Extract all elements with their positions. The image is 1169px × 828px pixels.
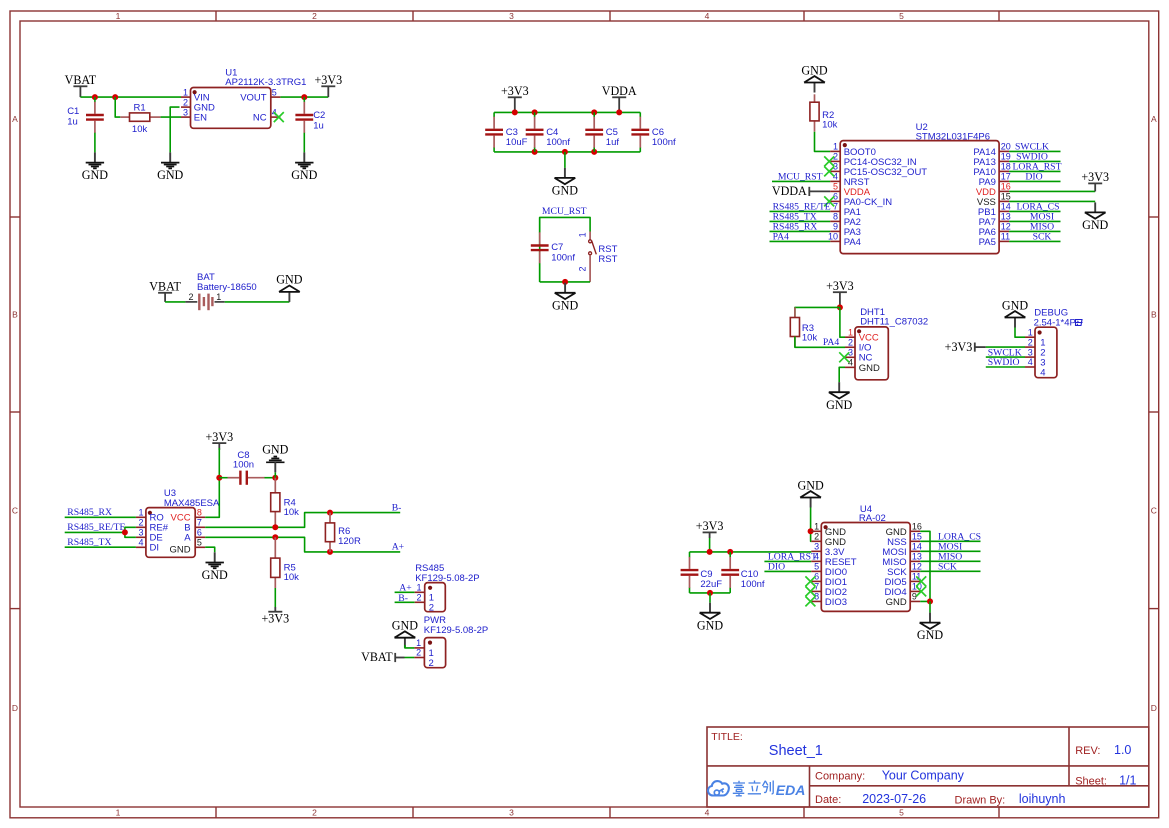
pin 5 DIO0 (811, 570, 821, 572)
wire SWDIO (986, 366, 1025, 368)
svg-text:C: C (1151, 505, 1157, 515)
svg-text:5: 5 (272, 87, 277, 97)
svg-text:2: 2 (183, 97, 188, 107)
wire battery right (225, 301, 290, 303)
capacitor C9 (689, 552, 691, 558)
pin 3 DE (136, 536, 146, 538)
pin 2 (1025, 346, 1035, 348)
svg-text:Sheet_1: Sheet_1 (769, 743, 823, 759)
ground (709, 603, 711, 613)
svg-text:9: 9 (912, 592, 917, 602)
pin 10 PA4 (830, 240, 840, 242)
wire SWCLK (1009, 150, 1060, 152)
net flag VBAT (394, 653, 396, 662)
svg-text:2: 2 (416, 648, 421, 658)
wire DIO (764, 570, 811, 572)
svg-text:Company:: Company: (815, 771, 865, 783)
svg-text:C1: C1 (67, 106, 79, 117)
svg-text:20: 20 (1001, 141, 1011, 151)
junction (216, 475, 222, 481)
svg-text:5: 5 (197, 537, 202, 547)
svg-text:1: 1 (578, 232, 588, 237)
pin 7 B (195, 526, 205, 528)
wire R1 to EN (161, 116, 181, 118)
net flag +3V3 (212, 442, 226, 444)
svg-text:VBAT: VBAT (149, 280, 181, 294)
svg-text:GND: GND (801, 63, 827, 77)
wire VSS to ground (1009, 200, 1095, 202)
svg-text:5: 5 (814, 562, 819, 572)
svg-text:2: 2 (429, 658, 434, 669)
svg-text:+3V3: +3V3 (945, 340, 973, 354)
svg-text:C: C (12, 505, 18, 515)
wire MISO (1009, 230, 1060, 232)
wire battery left (165, 301, 185, 303)
junction (272, 534, 278, 540)
ground (564, 283, 566, 293)
wire SWCLK (986, 356, 1025, 358)
svg-text:A: A (1151, 114, 1157, 124)
svg-text:+3V3: +3V3 (205, 430, 233, 444)
wire SCK (920, 570, 980, 572)
svg-text:1: 1 (216, 292, 221, 302)
no-connect X (824, 196, 834, 206)
pin 11 PA5 (999, 240, 1009, 242)
wire +3V3 to pin2 (986, 346, 1025, 348)
wire MCU_RST (772, 180, 830, 182)
svg-text:+3V3: +3V3 (501, 84, 529, 98)
resistor R2 (814, 94, 816, 102)
pin 6 A (195, 536, 205, 538)
svg-text:MAX485ESA: MAX485ESA (164, 498, 220, 509)
junction (327, 549, 333, 555)
pin 7 PA1 (830, 210, 840, 212)
pin 5 VOUT (271, 96, 281, 98)
svg-text:GND: GND (262, 442, 288, 456)
svg-text:GND: GND (859, 363, 880, 374)
pin 5 GND (195, 546, 205, 548)
capacitor C1 (94, 97, 96, 102)
svg-text:GND: GND (886, 597, 907, 608)
svg-text:3: 3 (509, 808, 514, 818)
ground (810, 498, 812, 508)
svg-text:Drawn By:: Drawn By: (955, 794, 1006, 806)
wire SCK (1009, 240, 1060, 242)
junction (272, 475, 278, 481)
wire +3V3 rail (709, 538, 711, 552)
svg-text:EN: EN (194, 113, 207, 124)
svg-text:1: 1 (416, 638, 421, 648)
junction (927, 598, 933, 604)
junction (837, 304, 843, 310)
svg-text:2: 2 (848, 337, 853, 347)
wire RS485_TX (770, 220, 831, 222)
pin 10 DIO4 (910, 590, 920, 592)
resistor R5 (274, 537, 276, 558)
svg-text:120R: 120R (338, 536, 361, 547)
svg-text:PA4: PA4 (823, 337, 839, 348)
ground (1094, 202, 1096, 212)
battery BAT Battery-18650 (185, 301, 197, 303)
svg-text:4: 4 (1028, 357, 1033, 367)
junction (591, 149, 597, 155)
net flag VDDA (808, 187, 810, 196)
svg-text:1: 1 (833, 141, 838, 151)
ground (838, 382, 840, 392)
pin 3 NC (845, 356, 855, 358)
wire MOSI (1009, 220, 1060, 222)
wire A net (205, 537, 400, 552)
capacitor C10 (729, 552, 731, 558)
pin 19 PA13 (999, 160, 1009, 162)
wire SWDIO (1009, 160, 1060, 162)
svg-text:1: 1 (848, 327, 853, 337)
svg-text:16: 16 (1001, 181, 1011, 191)
svg-text:C10: C10 (741, 569, 758, 580)
svg-text:GND: GND (202, 568, 228, 582)
svg-text:GND: GND (697, 618, 723, 632)
net flag +3V3 (833, 291, 847, 293)
title block (707, 727, 1149, 807)
svg-text:A+: A+ (392, 542, 404, 553)
ground (94, 152, 96, 162)
wire LORA_RST (1009, 170, 1060, 172)
svg-text:15: 15 (912, 532, 922, 542)
svg-text:GND: GND (552, 184, 578, 198)
wire to R1 and EN (115, 97, 120, 117)
pin 14 PB1 (999, 210, 1009, 212)
no-connect X (824, 166, 834, 176)
wire VDD to +3V3 (1009, 190, 1095, 192)
op-amp DHT1 DHT11_C87032 (855, 327, 888, 380)
svg-text:Date:: Date: (815, 794, 841, 806)
svg-text:VDDA: VDDA (602, 84, 637, 98)
svg-text:2: 2 (429, 603, 434, 614)
net flag +3V3 (703, 531, 717, 533)
ground (288, 292, 290, 302)
svg-text:10k: 10k (802, 333, 818, 344)
wire +3V3 to VCC (840, 307, 845, 337)
svg-text:10k: 10k (132, 124, 148, 135)
svg-text:+3V3: +3V3 (1081, 170, 1109, 184)
wire ground to GND pins (810, 508, 813, 542)
junction (122, 529, 128, 535)
wire VOUT to +3V3 (280, 96, 328, 98)
connector RS485 KF129-5.08-2P (425, 583, 446, 612)
no-connect X (805, 576, 815, 586)
pin 4 GND (845, 366, 855, 368)
svg-text:2: 2 (312, 808, 317, 818)
pin 16 GND (910, 530, 920, 532)
ground (404, 638, 406, 648)
svg-text:22uF: 22uF (700, 579, 722, 590)
svg-text:10k: 10k (284, 572, 300, 583)
svg-text:14: 14 (1001, 201, 1011, 211)
svg-text:5: 5 (899, 808, 904, 818)
capacitor C8 (228, 477, 240, 479)
pin 2 (415, 601, 425, 603)
capacitor C7 (539, 217, 541, 232)
svg-text:GND: GND (169, 545, 190, 556)
svg-text:PA5: PA5 (979, 237, 996, 248)
pin 12 PA6 (999, 230, 1009, 232)
logo JLC EDA (708, 781, 729, 795)
svg-text:100n: 100n (233, 459, 254, 470)
svg-text:10: 10 (828, 231, 838, 241)
svg-text:4: 4 (814, 552, 819, 562)
pin 2 (414, 657, 424, 659)
junction (532, 149, 538, 155)
pin 2 PC14-OSC32_IN (830, 160, 840, 162)
wire VBAT rail (80, 96, 181, 98)
junction (591, 109, 597, 115)
svg-text:1u: 1u (313, 121, 324, 132)
svg-text:16: 16 (912, 522, 922, 532)
junction (92, 94, 98, 100)
pin 3 EN (181, 116, 191, 118)
wire C8 right (265, 477, 276, 479)
svg-text:R1: R1 (134, 102, 146, 113)
svg-text:15: 15 (1001, 191, 1011, 201)
pin 12 SCK (910, 570, 920, 572)
pin 9 PA3 (830, 230, 840, 232)
svg-text:Your Company: Your Company (882, 769, 965, 783)
wire RS485_RE/TE (770, 210, 831, 212)
svg-text:+3V3: +3V3 (696, 519, 724, 533)
svg-text:Sheet:: Sheet: (1075, 775, 1107, 787)
svg-text:2: 2 (814, 532, 819, 542)
svg-text:7: 7 (197, 517, 202, 527)
svg-text:4: 4 (138, 537, 143, 547)
junction (327, 510, 333, 516)
svg-text:1: 1 (1028, 327, 1033, 337)
pin 2 GND (811, 540, 821, 542)
svg-text:17: 17 (1001, 171, 1011, 181)
pin 4 NC (271, 116, 281, 118)
svg-text:5: 5 (899, 11, 904, 21)
pin 7 DIO2 (811, 590, 821, 592)
net flag +3V3 (508, 96, 522, 98)
svg-text:4: 4 (705, 808, 710, 818)
wire U1 GND pin to ground (170, 107, 179, 152)
svg-text:6: 6 (197, 527, 202, 537)
svg-text:10uF: 10uF (506, 137, 528, 148)
wire MOSI (920, 550, 980, 552)
svg-text:10k: 10k (822, 119, 838, 130)
svg-text:1.0: 1.0 (1114, 743, 1131, 757)
capacitor C5 (593, 112, 595, 117)
svg-text:8: 8 (197, 507, 202, 517)
wire RS485_RX (770, 230, 831, 232)
junction (707, 590, 713, 596)
svg-text:1: 1 (116, 808, 121, 818)
pin 17 PA9 (999, 180, 1009, 182)
pin 5 VDDA (830, 190, 840, 192)
svg-text:GND: GND (291, 168, 317, 182)
wire DIO (1009, 180, 1060, 182)
junction (616, 109, 622, 115)
pin 8 DIO3 (811, 600, 821, 602)
svg-text:Battery-18650: Battery-18650 (197, 282, 257, 293)
svg-text:NC: NC (253, 113, 267, 124)
junction (301, 94, 307, 100)
svg-text:2: 2 (138, 517, 143, 527)
wire ground to pin1 (405, 645, 415, 648)
pin 11 DIO5 (910, 580, 920, 582)
svg-text:GND: GND (392, 619, 418, 633)
svg-text:3: 3 (1028, 347, 1033, 357)
svg-text:1u: 1u (67, 116, 78, 127)
svg-text:3: 3 (138, 527, 143, 537)
junction (707, 549, 713, 555)
wire PA4 (770, 240, 831, 242)
wire R2 to BOOT0 (815, 132, 831, 152)
ground (266, 461, 284, 463)
capacitor C6 (639, 112, 641, 117)
svg-text:2: 2 (312, 11, 317, 21)
wire LORA_RST (764, 560, 811, 562)
net flag VBAT (158, 292, 172, 294)
svg-text:KF129-5.08-2P: KF129-5.08-2P (424, 625, 488, 636)
pin 15 VSS (999, 200, 1009, 202)
svg-text:GND: GND (276, 273, 302, 287)
wire C8 left (219, 477, 227, 479)
capacitor C2 (303, 97, 305, 102)
svg-text:2: 2 (578, 267, 588, 272)
svg-text:GND: GND (157, 168, 183, 182)
pin 1 VIN (181, 96, 191, 98)
svg-text:9: 9 (833, 221, 838, 231)
wire LORA_CS (920, 540, 980, 542)
wire bottom rail (494, 151, 640, 153)
wire MISO (920, 560, 980, 562)
svg-text:RST: RST (598, 254, 617, 265)
wire to ground (929, 601, 931, 612)
wire reset loop bottom (540, 281, 590, 283)
svg-text:GND: GND (82, 168, 108, 182)
svg-text:100nf: 100nf (546, 137, 570, 148)
wire A+ (395, 591, 415, 593)
pin 6 PA0-CK_IN (830, 200, 840, 202)
junction (808, 528, 814, 534)
pin 2 RE# (136, 526, 146, 528)
resistor R4 (274, 478, 276, 493)
pin 20 PA14 (999, 150, 1009, 152)
svg-text:2023-07-26: 2023-07-26 (862, 792, 926, 806)
wire to ground (564, 152, 566, 168)
svg-text:2: 2 (188, 292, 193, 302)
pin 4 (1025, 366, 1035, 368)
svg-text:GND: GND (917, 628, 943, 642)
wire +3V3 to R3 (795, 307, 840, 317)
svg-text:DHT11_C87032: DHT11_C87032 (860, 317, 928, 328)
net flag VDDA (612, 96, 626, 98)
pin 15 NSS (910, 540, 920, 542)
pin 2 I/O (845, 346, 855, 348)
svg-text:C9: C9 (700, 569, 712, 580)
svg-text:1: 1 (116, 11, 121, 21)
svg-text:GND: GND (797, 478, 823, 492)
junction (562, 149, 568, 155)
resistor R1 (120, 116, 129, 118)
svg-text:4: 4 (1040, 367, 1045, 378)
svg-text:1: 1 (183, 87, 188, 97)
capacitor C4 (534, 112, 536, 117)
pin 1 VCC (845, 336, 855, 338)
wire to ground (709, 593, 711, 603)
pin 1 RO (136, 516, 146, 518)
pin 8 PA2 (830, 220, 840, 222)
net flag +3V3 (321, 85, 335, 87)
wire R3 to I/O (795, 337, 845, 348)
net flag +3V3 (1088, 182, 1102, 184)
pin 1 (414, 647, 424, 649)
net flag VBAT (73, 85, 87, 87)
svg-text:AP2112K-3.3TRG1: AP2112K-3.3TRG1 (225, 77, 306, 88)
junction (272, 524, 278, 530)
wire to ground (274, 472, 276, 477)
resistor R3 (794, 307, 796, 317)
pin 1 (1025, 336, 1035, 338)
pin 13 PA7 (999, 220, 1009, 222)
ground (169, 152, 171, 162)
svg-text:12: 12 (912, 562, 922, 572)
pin 4 DI (136, 546, 146, 548)
ground (929, 613, 931, 623)
wire LORA_CS (1009, 210, 1060, 212)
wire RS485_RX (65, 516, 136, 518)
capacitor C3 (493, 112, 495, 117)
svg-text:14: 14 (912, 542, 922, 552)
pin 4 RESET (811, 560, 821, 562)
ground (814, 83, 816, 93)
no-connect X (805, 596, 815, 606)
op-amp U3 MAX485ESA (146, 508, 195, 558)
svg-text:D: D (12, 703, 18, 713)
pin 14 MOSI (910, 550, 920, 552)
pin 16 VDD (999, 190, 1009, 192)
wire ground to pin1 (1015, 328, 1025, 338)
svg-text:B-: B- (392, 502, 402, 513)
svg-text:TITLE:: TITLE: (711, 731, 743, 743)
pin 4 NRST (830, 180, 840, 182)
svg-text:4: 4 (705, 11, 710, 21)
no-connect X (839, 352, 849, 362)
op-amp U2 STM32L031F4P6 (840, 141, 999, 254)
wire bottom rail (690, 592, 731, 594)
wire GND pin to ground (839, 367, 845, 382)
junction (112, 94, 118, 100)
switch RST (589, 232, 591, 240)
svg-text:VBAT: VBAT (65, 73, 97, 87)
op-amp U4 RA-02 (821, 523, 910, 612)
svg-text:GND: GND (1082, 218, 1108, 232)
pin 13 MISO (910, 560, 920, 562)
wire RS485_RE/TE (65, 527, 136, 532)
svg-text:KF129-5.08-2P: KF129-5.08-2P (415, 573, 479, 584)
svg-text:10k: 10k (284, 507, 300, 518)
wire RE to DE (125, 532, 136, 537)
op-amp U1 AP2112K-3.3TRG1 (191, 88, 271, 129)
svg-text:+3V3: +3V3 (826, 279, 854, 293)
svg-text:loihuynh: loihuynh (1019, 792, 1066, 806)
pin 3 PC15-OSC32_OUT (830, 170, 840, 172)
svg-text:3: 3 (183, 107, 188, 117)
svg-text:5: 5 (833, 181, 838, 191)
wire R5 to +3V3 (274, 588, 276, 607)
no-connect X (916, 586, 926, 596)
pin 3 (1025, 356, 1035, 358)
